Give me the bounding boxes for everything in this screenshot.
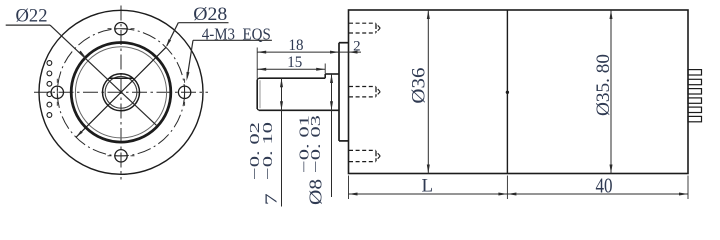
dimension 15 bbox=[257, 68, 325, 71]
shaft top edge full diameter bbox=[325, 73, 339, 75]
shaft flat top edge bbox=[259, 77, 325, 79]
terminal tabs (rear) bbox=[688, 70, 702, 122]
extension lines bottom bbox=[349, 176, 689, 200]
dimension text 2 bbox=[353, 38, 361, 54]
hidden tapped hole top (M3) bbox=[349, 23, 380, 33]
shaft bottom edge bbox=[259, 109, 339, 111]
svg-text:Ø22: Ø22 bbox=[16, 5, 48, 26]
dimension 18 and 2 line bbox=[257, 51, 361, 54]
label D22 with leader across boss circle bbox=[6, 5, 157, 125]
boss chamfer circle bbox=[75, 47, 166, 138]
svg-text:15: 15 bbox=[287, 54, 302, 71]
svg-text:−0. 03: −0. 03 bbox=[309, 115, 324, 173]
front view horizontal centerline bbox=[34, 91, 208, 93]
hidden tapped hole bottom (M3) bbox=[349, 150, 380, 161]
bolt circle diameter line NE-SW with arrow bbox=[76, 47, 166, 137]
svg-text:−0. 10: −0. 10 bbox=[261, 122, 276, 180]
dimension text 15 bbox=[287, 54, 302, 71]
dimension L and 40 line bbox=[349, 193, 689, 196]
label D28 with leader bbox=[166, 4, 229, 47]
gearbox-motor junction line bbox=[506, 10, 509, 174]
dimension text 7 with tolerance bbox=[248, 122, 281, 205]
svg-text:2: 2 bbox=[353, 38, 361, 54]
motor body outline circle (front, D36) bbox=[39, 10, 203, 174]
shaft chamfer line bbox=[259, 80, 261, 108]
extension line shaft end bbox=[256, 48, 258, 79]
dimension 7 line bbox=[280, 78, 283, 206]
shaft chamfer circle bbox=[105, 76, 137, 108]
bolt circle D28 (dash-dot) bbox=[57, 29, 184, 156]
mounting hole M3 left bbox=[51, 79, 63, 106]
dimension text 40 bbox=[596, 173, 613, 197]
mounting hole M3 bottom bbox=[108, 150, 135, 162]
label 4-M3 EQS with leader bbox=[187, 24, 272, 81]
motor body outline (side view) bbox=[349, 10, 689, 174]
front view vertical centerline bbox=[120, 6, 122, 180]
shaft circle D8 bbox=[103, 74, 140, 111]
dimension text 18 bbox=[289, 37, 304, 54]
dimension D35.80 line bbox=[610, 10, 613, 174]
dimension D8 line bbox=[330, 74, 333, 197]
dimension text D35.80 bbox=[593, 54, 614, 116]
svg-text:18: 18 bbox=[289, 37, 304, 54]
svg-text:Ø35. 80: Ø35. 80 bbox=[593, 54, 614, 116]
front boss (side view) bbox=[339, 43, 349, 141]
svg-text:Ø8: Ø8 bbox=[305, 179, 325, 205]
svg-text:40: 40 bbox=[596, 173, 613, 197]
svg-text:7: 7 bbox=[262, 193, 281, 206]
dimension text D36 bbox=[409, 68, 430, 104]
hidden tapped hole middle (M3) bbox=[349, 87, 380, 97]
mounting hole M3 top bbox=[108, 23, 135, 35]
extension line flat end bbox=[324, 64, 326, 74]
gearbox boss circle D22 (bold) bbox=[71, 43, 171, 143]
mounting hole M3 right bbox=[178, 79, 190, 106]
terminal pin circles (front) bbox=[47, 61, 52, 118]
svg-text:Ø36: Ø36 bbox=[409, 68, 430, 104]
shaft end face bbox=[257, 78, 259, 110]
dimension text D8 with tolerance bbox=[298, 115, 326, 205]
shaft flat chord bbox=[109, 77, 133, 79]
svg-text:L: L bbox=[421, 175, 433, 196]
dimension text L bbox=[421, 175, 433, 196]
dimension D36 line bbox=[427, 10, 430, 174]
svg-text:Ø28: Ø28 bbox=[193, 4, 227, 25]
shaft flat step bbox=[324, 74, 326, 78]
